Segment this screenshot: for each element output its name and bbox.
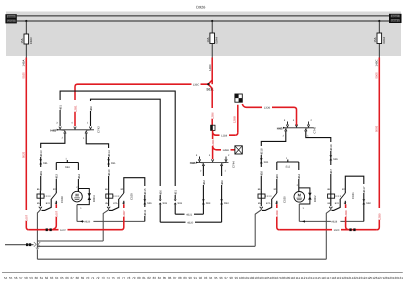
svg-text:12B8: 12B8 (275, 210, 279, 217)
svg-text:C743: C743 (97, 126, 101, 133)
svg-text:75: 75 (112, 276, 116, 280)
svg-text:A826: A826 (84, 221, 91, 224)
svg-text:1607: 1607 (55, 210, 59, 217)
svg-text:S91: S91 (111, 162, 116, 165)
svg-text:4B0: 4B0 (89, 106, 93, 111)
svg-text:5005: 5005 (375, 125, 379, 132)
svg-text:54: 54 (4, 276, 8, 280)
svg-text:S95: S95 (264, 161, 269, 164)
ground wire A826 (motor B004 / relay C029 pin30) (77, 220, 145, 224)
ground wire A828 (motor B002 / relay C031 pin30) (299, 220, 364, 224)
wire red S011 down (211, 88, 213, 125)
wire relay C031 pin30 loop (345, 176, 364, 221)
svg-text:14B0: 14B0 (208, 64, 212, 71)
node fuse3 tap (378, 20, 380, 22)
svg-text:4B4: 4B4 (77, 174, 81, 179)
svg-text:C030: C030 (282, 196, 286, 203)
power rail band (6, 12, 401, 57)
svg-text:4B20: 4B20 (187, 221, 194, 224)
wire C743 pin1 up and over to long drop (91, 99, 161, 199)
svg-text:B004: B004 (92, 195, 96, 202)
wire S94 left to relay C028 pin30 (55, 163, 57, 191)
wire red branch lower to terminal box (213, 147, 235, 150)
svg-text:69: 69 (81, 276, 85, 280)
node fuse1 tap (25, 20, 27, 22)
svg-text:E834: E834 (382, 37, 386, 44)
fuse E844 (206, 21, 219, 58)
inline connector on right red bus (349, 228, 355, 231)
svg-text:S96: S96 (333, 158, 338, 161)
svg-text:12B0: 12B0 (378, 213, 382, 220)
connector box right (389, 14, 402, 23)
svg-text:77: 77 (122, 276, 126, 280)
svg-text:4B0: 4B0 (159, 190, 163, 195)
svg-text:12BB: 12BB (233, 116, 237, 123)
svg-text:97: 97 (224, 276, 228, 280)
wire S12 left to relay C030 pin30 (276, 162, 278, 191)
svg-text:72: 72 (96, 276, 100, 280)
fuse E833 (20, 21, 33, 58)
svg-text:4B1: 4B1 (59, 105, 63, 110)
svg-text:S93: S93 (206, 202, 211, 205)
splice S94 (56, 157, 78, 168)
svg-text:C744: C744 (232, 161, 236, 168)
svg-text:4B19: 4B19 (329, 144, 333, 151)
svg-text:M081: M081 (391, 19, 399, 23)
red splice bus right (279, 229, 377, 231)
svg-text:E844: E844 (215, 37, 219, 44)
inline connector on loop (362, 199, 371, 205)
ground wire lower run to relay C031 (37, 258, 326, 260)
wire link outer pair (160, 221, 221, 223)
svg-text:S91: S91 (43, 162, 48, 165)
svg-text:4B11: 4B11 (143, 209, 147, 216)
svg-text:87A: 87A (46, 202, 51, 205)
svg-text:79: 79 (132, 276, 136, 280)
bus wire top 2 (17, 20, 389, 22)
svg-text:4B15: 4B15 (143, 188, 147, 195)
svg-text:5025: 5025 (22, 72, 26, 79)
wire C745 pin2b down-left to relay C030 coil (261, 131, 286, 191)
wire red feed right (fuse E834 down to right bus) (377, 58, 380, 230)
svg-text:81: 81 (142, 276, 146, 280)
inline connector on left red bus (46, 228, 52, 231)
svg-text:93: 93 (204, 276, 208, 280)
svg-text:C029: C029 (130, 193, 134, 200)
svg-text:89: 89 (183, 276, 187, 280)
svg-text:4B2: 4B2 (202, 180, 206, 185)
fuse E834 (373, 21, 386, 58)
inline connector on long drop x175 (174, 199, 183, 205)
svg-text:C031: C031 (351, 192, 355, 199)
svg-text:82: 82 (147, 276, 151, 280)
splice S12 (277, 157, 299, 168)
ruler numbers (4, 276, 404, 280)
svg-text:87A: 87A (113, 202, 118, 205)
svg-text:4B1: 4B1 (174, 190, 178, 195)
svg-text:12B8: 12B8 (221, 134, 228, 137)
ground wire to C029 drop (37, 240, 103, 242)
svg-text:85: 85 (163, 276, 167, 280)
wire link inner pair (175, 213, 203, 215)
svg-text:S92: S92 (366, 202, 371, 205)
svg-text:M080: M080 (7, 19, 15, 23)
svg-text:H4B: H4B (50, 128, 56, 132)
svg-text:B002: B002 (313, 195, 317, 202)
svg-text:4B4: 4B4 (297, 174, 301, 179)
svg-text:68: 68 (76, 276, 80, 280)
wire red C031 pin87 to right bus (346, 204, 349, 230)
svg-text:56: 56 (14, 276, 18, 280)
svg-text:4B17: 4B17 (362, 186, 366, 193)
wire C745 pin1b down-right to relay C031 coil (306, 131, 331, 191)
svg-text:71: 71 (91, 276, 95, 280)
svg-text:59: 59 (29, 276, 33, 280)
svg-text:131: 131 (398, 276, 403, 280)
wire C029 coil to ground (107, 207, 110, 208)
svg-text:92: 92 (199, 276, 203, 280)
svg-text:F081: F081 (392, 15, 399, 19)
svg-text:A828: A828 (331, 221, 338, 224)
svg-text:96: 96 (219, 276, 223, 280)
svg-text:S91: S91 (178, 202, 183, 205)
svg-text:12B7: 12B7 (122, 210, 126, 217)
svg-text:80: 80 (137, 276, 141, 280)
svg-text:95: 95 (214, 276, 218, 280)
inline connector on red wire (pass-through) (211, 125, 215, 130)
svg-text:4B10: 4B10 (107, 169, 111, 176)
svg-text:1607: 1607 (60, 229, 66, 232)
inline connector on left ground stub (26, 243, 28, 246)
svg-text:4B8: 4B8 (260, 171, 264, 176)
svg-text:70: 70 (86, 276, 90, 280)
svg-text:4B7: 4B7 (329, 169, 333, 174)
ground wire left stub (5, 244, 34, 246)
node fuse2 tap (211, 20, 213, 22)
red splice bus left (29, 229, 122, 231)
terminal box hatched (235, 146, 242, 154)
wire S94 right to motor B004 pin2 (77, 163, 79, 192)
svg-text:S91: S91 (163, 202, 168, 205)
wire red C030 pin87 to right bus (277, 204, 280, 230)
svg-text:4B14: 4B14 (107, 150, 111, 157)
svg-text:98: 98 (230, 276, 234, 280)
wire C744 pin1 drop (221, 165, 223, 222)
svg-text:87A: 87A (266, 202, 271, 205)
inline connector S91 (107, 159, 116, 165)
svg-text:57: 57 (19, 276, 23, 280)
svg-text:91: 91 (194, 276, 198, 280)
inline connector on long drop x160 (159, 199, 168, 205)
svg-text:14BA: 14BA (22, 60, 26, 67)
svg-text:10A: 10A (206, 37, 210, 42)
wire C743 pin1b down to relay C029 coil (86, 133, 108, 191)
ground wire to C030 drop (37, 245, 255, 247)
svg-text:1600: 1600 (334, 229, 340, 232)
svg-text:5005: 5005 (375, 72, 379, 79)
svg-text:67: 67 (71, 276, 75, 280)
svg-text:84: 84 (158, 276, 162, 280)
svg-text:73: 73 (101, 276, 105, 280)
svg-text:86: 86 (168, 276, 172, 280)
svg-text:S91: S91 (147, 202, 152, 205)
wire red from upper box right to C745 pin 4 (242, 104, 296, 126)
svg-text:D926: D926 (196, 5, 205, 9)
svg-text:14BC: 14BC (375, 60, 379, 67)
svg-text:87: 87 (173, 276, 177, 280)
svg-text:5025: 5025 (22, 151, 26, 158)
svg-text:61: 61 (40, 276, 44, 280)
svg-text:15A: 15A (20, 38, 24, 43)
svg-text:66: 66 (65, 276, 69, 280)
svg-text:S94: S94 (65, 166, 70, 169)
wire red C029 pin87 to bus (121, 204, 124, 230)
svg-text:90: 90 (189, 276, 193, 280)
svg-text:15A: 15A (373, 37, 377, 42)
svg-text:S12: S12 (285, 165, 290, 168)
svg-text:4B3: 4B3 (55, 174, 59, 179)
svg-text:F080: F080 (8, 15, 15, 19)
wire relay C029 pin30 loop (124, 178, 145, 222)
wire C030 coil to ground (260, 207, 263, 208)
svg-text:C745: C745 (313, 126, 317, 133)
svg-text:55: 55 (9, 276, 13, 280)
svg-text:62: 62 (45, 276, 49, 280)
wire S12 right to motor B002 pin2 (298, 162, 300, 193)
svg-text:60: 60 (35, 276, 39, 280)
svg-text:12B6: 12B6 (211, 112, 215, 119)
inline connector S91 on that wire (39, 159, 48, 165)
inline connector S96 (329, 155, 338, 161)
wire long drop x175 bottom (174, 204, 176, 214)
svg-text:4B13: 4B13 (39, 150, 43, 157)
svg-text:12BC: 12BC (193, 83, 200, 86)
wire red branch to check-box connector upper (213, 105, 238, 135)
svg-text:88: 88 (178, 276, 182, 280)
wire C028 coil to ground star (39, 207, 42, 208)
inline connector S91 on loop (143, 199, 152, 205)
svg-text:65: 65 (60, 276, 64, 280)
svg-text:H4B: H4B (190, 161, 196, 165)
node S011 (206, 80, 213, 92)
svg-text:58: 58 (24, 276, 28, 280)
wire red branch (S011 left to connector C743 pin 4) (75, 84, 208, 126)
bus wire top 1 (17, 15, 389, 17)
ruler line (2, 271, 403, 273)
svg-text:4B0: 4B0 (220, 180, 224, 185)
connector box upper (to C745 feed) (235, 94, 242, 102)
svg-text:63: 63 (50, 276, 54, 280)
inline connector S95 (260, 158, 269, 164)
svg-text:4B9: 4B9 (39, 171, 43, 176)
svg-text:83: 83 (153, 276, 157, 280)
svg-text:H4B: H4B (277, 126, 283, 130)
svg-text:4B5: 4B5 (275, 174, 279, 179)
svg-text:12B6: 12B6 (211, 139, 215, 146)
svg-text:94: 94 (209, 276, 213, 280)
svg-text:1607: 1607 (25, 214, 29, 221)
wire C743 pin3 up and over to long drop (60, 91, 175, 199)
wire red feed left (fuse E833 to splice bus) (26, 58, 29, 230)
svg-text:64: 64 (55, 276, 59, 280)
svg-text:12BB: 12BB (223, 149, 230, 152)
svg-text:76: 76 (117, 276, 121, 280)
svg-text:78: 78 (127, 276, 131, 280)
svg-text:74: 74 (106, 276, 110, 280)
svg-text:E833: E833 (29, 37, 33, 44)
connector box left (battery feed) (5, 14, 16, 23)
svg-text:99: 99 (235, 276, 239, 280)
svg-text:S93: S93 (224, 202, 229, 205)
svg-text:87A: 87A (335, 202, 340, 205)
wire red feed centre (fuse E844 down to node S011) (211, 58, 213, 85)
wire C744 pin2 drop (202, 165, 204, 214)
svg-text:12B9: 12B9 (344, 210, 348, 217)
svg-text:C028: C028 (60, 196, 64, 203)
svg-text:4B21: 4B21 (186, 213, 193, 216)
wire C031 coil to ground (329, 207, 332, 208)
ground node chevrons (34, 242, 40, 250)
svg-text:12DB: 12DB (264, 107, 271, 110)
wire red down to C744 pin 4 with two branches (212, 130, 214, 159)
wire red C028 pin87 to bus (53, 204, 57, 230)
wire C743 pin2 down to relay C028 coil (41, 133, 65, 191)
svg-text:4B18: 4B18 (260, 148, 264, 155)
svg-text:12B1: 12B1 (73, 105, 77, 112)
